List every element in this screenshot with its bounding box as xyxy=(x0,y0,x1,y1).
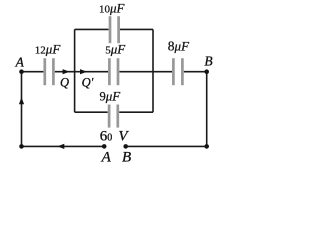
svg-text:B: B xyxy=(204,53,212,68)
svg-text:12μF: 12μF xyxy=(35,42,62,57)
svg-text:10μF: 10μF xyxy=(99,0,126,15)
svg-text:5μF: 5μF xyxy=(105,41,126,56)
svg-text:A: A xyxy=(15,54,25,69)
svg-text:B: B xyxy=(122,150,131,166)
svg-text:Q': Q' xyxy=(82,75,94,89)
svg-text:8μF: 8μF xyxy=(168,39,190,54)
svg-text:A: A xyxy=(101,150,112,166)
svg-text:Q: Q xyxy=(60,75,69,89)
svg-text:9μF: 9μF xyxy=(100,88,122,103)
